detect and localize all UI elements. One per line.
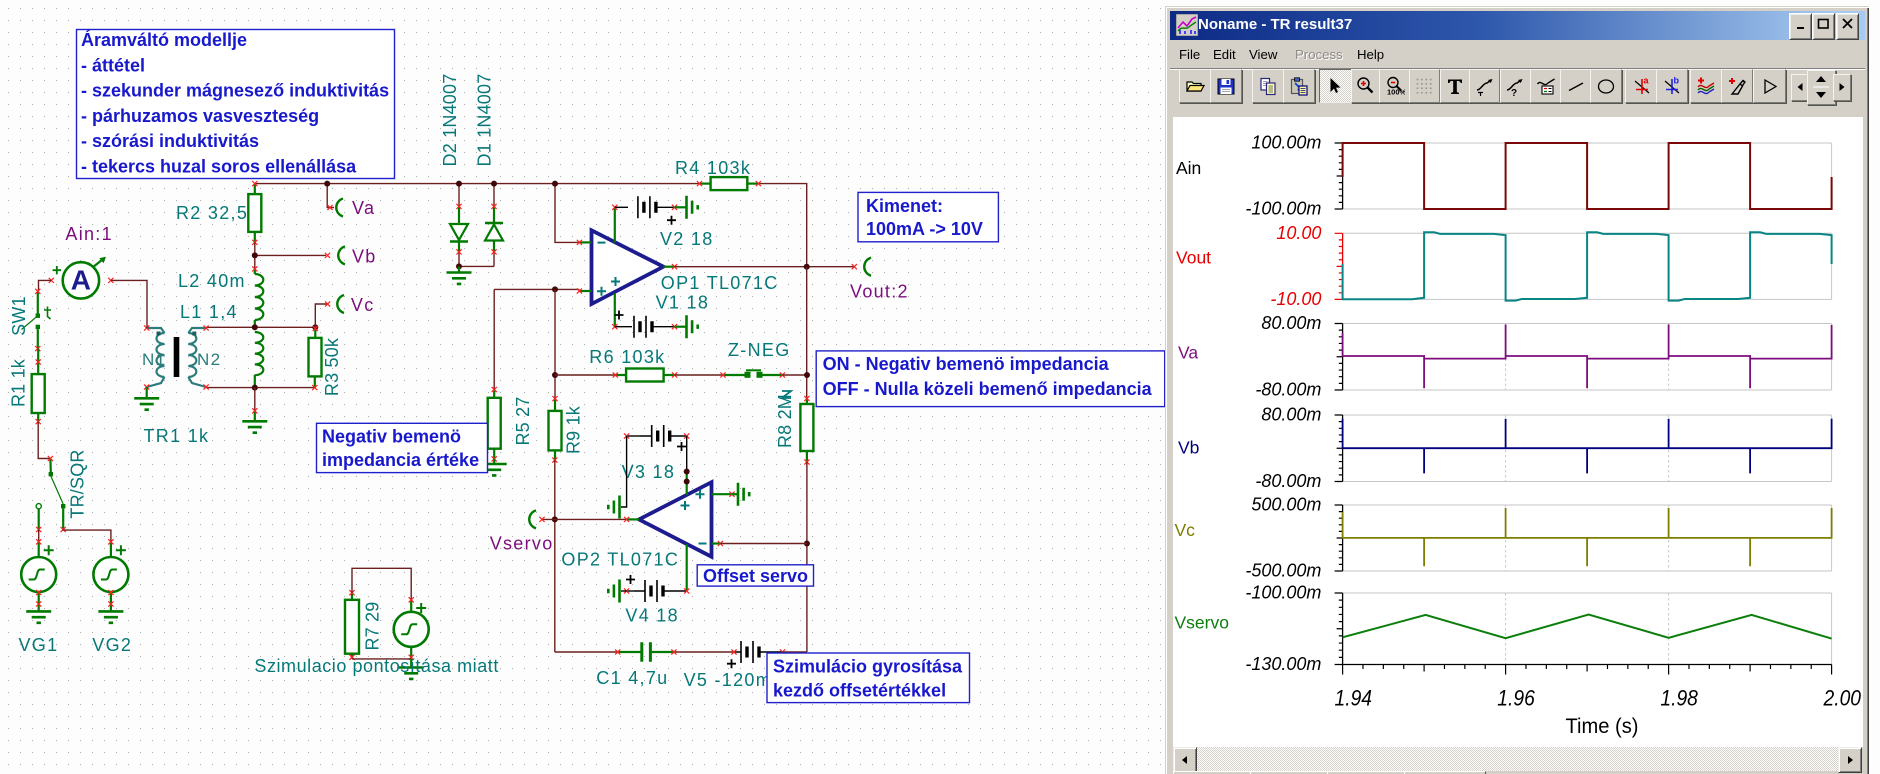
svg-text:ON - Negativ bemenö impedancia: ON - Negativ bemenö impedancia bbox=[823, 354, 1110, 374]
svg-text:- szekunder mágnesező induktiv: - szekunder mágnesező induktivitás bbox=[81, 81, 389, 101]
svg-text:500.00m: 500.00m bbox=[1251, 495, 1321, 515]
svg-text:-80.00m: -80.00m bbox=[1255, 380, 1321, 400]
svg-text:R7 29: R7 29 bbox=[363, 601, 383, 650]
svg-text:R2 32,5: R2 32,5 bbox=[176, 203, 248, 223]
svg-text:Vservo: Vservo bbox=[490, 534, 554, 554]
svg-text:Vc: Vc bbox=[1175, 520, 1196, 540]
annotation box: Aramvalto modellje bbox=[77, 29, 395, 179]
svg-text:-80.00m: -80.00m bbox=[1255, 471, 1321, 491]
svg-text:V5 -120m: V5 -120m bbox=[684, 670, 772, 690]
wire TR/SQR to VG1 bbox=[38, 530, 40, 542]
resistor R9 bbox=[549, 396, 562, 463]
svg-text:R6 103k: R6 103k bbox=[589, 347, 665, 367]
svg-text:Va: Va bbox=[352, 198, 375, 218]
svg-text:N1: N1 bbox=[142, 350, 166, 369]
ground under L1 node bbox=[242, 388, 267, 433]
svg-text:- áttétel: - áttétel bbox=[81, 55, 145, 75]
ground under diodes bbox=[447, 266, 472, 284]
svg-text:- tekercs huzal soros ellenáll: - tekercs huzal soros ellenállása bbox=[81, 157, 357, 177]
chart track Vout bbox=[1176, 223, 1832, 309]
svg-text:Vb: Vb bbox=[1178, 438, 1199, 458]
time axis bbox=[1343, 665, 1832, 675]
wire R5 node to OP1 non-inverting input bbox=[494, 286, 579, 389]
inductor L2 bbox=[252, 266, 263, 327]
svg-text:Szimulacio pontosítása miatt: Szimulacio pontosítása miatt bbox=[254, 656, 499, 676]
svg-text:D1 1N4007: D1 1N4007 bbox=[475, 74, 495, 167]
svg-text:10.00: 10.00 bbox=[1276, 223, 1321, 243]
op-amp OP2 TL071C bbox=[624, 472, 735, 591]
terminal Vservo bbox=[529, 510, 544, 528]
wire Vc tap bbox=[315, 304, 327, 327]
svg-text:C1 4,7u: C1 4,7u bbox=[596, 668, 668, 688]
trace Vout bbox=[1343, 232, 1832, 300]
svg-text:-500.00m: -500.00m bbox=[1245, 561, 1321, 581]
trace Va bbox=[1343, 325, 1832, 389]
wire Vservo node to OP2 output bbox=[542, 518, 627, 520]
chart track Va bbox=[1178, 313, 1832, 400]
svg-text:Vout:2: Vout:2 bbox=[850, 282, 909, 302]
wire OP1 output to Vout bbox=[675, 264, 855, 270]
wire R6 to Z-NEG switch bbox=[675, 374, 723, 376]
wire V3 minus down to ground bbox=[621, 436, 627, 507]
svg-text:100.00m: 100.00m bbox=[1251, 133, 1321, 153]
svg-text:V2 18: V2 18 bbox=[660, 229, 714, 249]
wire V5 to R8 column bottom bbox=[783, 651, 807, 653]
inductor L1 bbox=[255, 332, 264, 388]
svg-text:VG2: VG2 bbox=[92, 635, 132, 655]
terminal Vout bbox=[852, 258, 871, 276]
svg-text:R4 103k: R4 103k bbox=[675, 158, 751, 178]
resistor R6 bbox=[613, 369, 678, 382]
svg-text:1.94: 1.94 bbox=[1335, 686, 1373, 711]
ground for V1 bbox=[675, 315, 698, 338]
svg-text:R3 50k: R3 50k bbox=[322, 337, 342, 396]
svg-text:N2: N2 bbox=[197, 350, 221, 369]
svg-text:-10.00: -10.00 bbox=[1270, 289, 1321, 309]
switch TR/SQR bbox=[36, 456, 66, 532]
svg-text:- szórási induktivitás: - szórási induktivitás bbox=[81, 131, 259, 151]
annotation box: ON/OFF impedancia bbox=[816, 351, 1164, 407]
annotation box: Offset servo bbox=[697, 565, 813, 586]
svg-text:OFF - Nulla közeli bemenő impe: OFF - Nulla közeli bemenő impedancia bbox=[823, 379, 1153, 399]
battery V2 bbox=[615, 196, 677, 224]
svg-text:A: A bbox=[71, 265, 91, 296]
svg-text:kezdő offsetértékkel: kezdő offsetértékkel bbox=[773, 681, 946, 701]
ground under R7 source bbox=[399, 659, 424, 679]
wire V3 to OP2 V+ pin bbox=[684, 436, 690, 485]
ground for V3 bbox=[608, 496, 619, 519]
ground under N1 bbox=[134, 387, 159, 410]
svg-text:Offset servo: Offset servo bbox=[703, 566, 808, 586]
switch SW1 bbox=[22, 289, 52, 352]
resistor R1 bbox=[32, 349, 45, 425]
wire: top bus from R2 to R4 and output column bbox=[255, 184, 807, 267]
svg-text:Vout: Vout bbox=[1176, 247, 1211, 267]
svg-text:2.00: 2.00 bbox=[1823, 686, 1862, 711]
resistor R7 bbox=[345, 590, 359, 660]
svg-text:R9 1k: R9 1k bbox=[564, 405, 584, 454]
wire R7 bottom to source bottom bbox=[352, 658, 411, 660]
terminal Vc bbox=[325, 295, 344, 313]
wire to R6 from plus-input node bbox=[552, 289, 615, 398]
svg-text:?: ? bbox=[1511, 88, 1517, 97]
voltage generator VG1 bbox=[21, 539, 56, 623]
battery V5 bbox=[727, 641, 785, 668]
wire ammeter to SW1 bbox=[39, 280, 52, 291]
wire Z-NEG to R8 column bbox=[782, 267, 810, 399]
svg-text:80.00m: 80.00m bbox=[1261, 313, 1321, 333]
svg-text:V3 18: V3 18 bbox=[622, 462, 676, 482]
svg-text:Ain:1: Ain:1 bbox=[65, 224, 113, 244]
svg-text:1.98: 1.98 bbox=[1660, 686, 1698, 711]
svg-text:TR/SQR: TR/SQR bbox=[68, 449, 88, 518]
svg-text:100%: 100% bbox=[1387, 88, 1405, 97]
svg-text:Va: Va bbox=[1178, 342, 1198, 362]
svg-text:- párhuzamos vasveszteség: - párhuzamos vasveszteség bbox=[81, 106, 319, 126]
svg-text:L1 1,4: L1 1,4 bbox=[180, 302, 238, 322]
svg-text:Vc: Vc bbox=[351, 295, 375, 315]
ammeter Ain bbox=[49, 257, 114, 299]
wire R9 to Vservo node bbox=[552, 460, 558, 652]
svg-text:1.96: 1.96 bbox=[1497, 686, 1535, 711]
wire R8 to OP2 minus node bbox=[804, 462, 810, 652]
svg-text:Negativ bemenö: Negativ bemenö bbox=[322, 427, 461, 447]
wire secondary bottom bus y=387.6 bbox=[206, 385, 315, 391]
annotation box: Szimulacio gyorsitasa bbox=[767, 653, 970, 703]
svg-text:V4 18: V4 18 bbox=[625, 606, 679, 626]
svg-text:b: b bbox=[1674, 76, 1680, 86]
svg-text:100mA -> 10V: 100mA -> 10V bbox=[866, 219, 983, 239]
resistor R2 bbox=[248, 181, 261, 245]
svg-text:OP1 TL071C: OP1 TL071C bbox=[661, 273, 779, 293]
switch Z-NEG bbox=[720, 370, 791, 398]
capacitor C1 bbox=[615, 642, 676, 662]
resistor R5 bbox=[488, 387, 501, 462]
svg-text:-130.00m: -130.00m bbox=[1245, 654, 1321, 674]
transformer TR1 winding N2 bbox=[188, 325, 208, 389]
battery V4 bbox=[624, 575, 689, 602]
svg-text:80.00m: 80.00m bbox=[1261, 405, 1321, 425]
annotation box: Negativ bemeno impedancia erteke bbox=[317, 423, 488, 472]
svg-text:Z-NEG: Z-NEG bbox=[728, 340, 791, 360]
wire C1 to V5 bbox=[674, 651, 734, 653]
svg-text:-100.00m: -100.00m bbox=[1245, 199, 1321, 219]
trace Vservo bbox=[1343, 615, 1832, 639]
svg-text:V1 18: V1 18 bbox=[656, 293, 710, 313]
battery V3 bbox=[624, 425, 689, 451]
svg-text:SW1: SW1 bbox=[9, 296, 29, 336]
transformer TR1 core bbox=[174, 337, 180, 377]
wire R7 top loop to source bbox=[352, 568, 411, 600]
chart track Vc bbox=[1175, 495, 1832, 581]
svg-text:TR1 1k: TR1 1k bbox=[144, 426, 210, 446]
transformer TR1 winding N1 bbox=[144, 325, 164, 389]
trace Ain bbox=[1343, 143, 1832, 209]
wire secondary top bus y=327 bbox=[206, 324, 318, 330]
svg-text:Szimulácio gyrosítása: Szimulácio gyrosítása bbox=[773, 657, 963, 677]
wire top bus to OP1 inverting input bbox=[552, 181, 579, 243]
resistor R4 bbox=[697, 177, 761, 190]
resistor R8 bbox=[800, 396, 813, 465]
svg-text:Time (s): Time (s) bbox=[1566, 715, 1639, 738]
trace Vb bbox=[1343, 419, 1832, 474]
svg-text:a: a bbox=[1643, 76, 1649, 86]
chart track Vservo bbox=[1175, 583, 1832, 675]
wire ammeter to transformer N1 bbox=[111, 280, 147, 328]
diode D1 bbox=[485, 181, 503, 267]
wire TR/SQR to VG2 bbox=[63, 530, 111, 542]
wire R2 to L2 with Vb tap bbox=[252, 242, 326, 269]
trace Vc bbox=[1343, 508, 1832, 566]
voltage source for R7 branch bbox=[394, 597, 429, 660]
svg-text:Vservo: Vservo bbox=[1175, 613, 1229, 633]
svg-text:VG1: VG1 bbox=[19, 635, 59, 655]
wire diode bottoms join bbox=[456, 263, 494, 269]
svg-text:D2 1N4007: D2 1N4007 bbox=[440, 74, 460, 167]
wire OP2 minus input to R8 column bbox=[720, 543, 807, 545]
diode D2 bbox=[450, 181, 468, 267]
wire R1 to TR/SQR switch bbox=[38, 422, 50, 459]
ground for V4 bbox=[608, 580, 626, 603]
svg-text:R1 1k: R1 1k bbox=[9, 358, 29, 407]
terminal Va bbox=[327, 199, 343, 217]
svg-text:-100.00m: -100.00m bbox=[1245, 583, 1321, 603]
ground for V2 bbox=[675, 196, 698, 219]
annotation box: Kimenet bbox=[858, 192, 998, 241]
ground under R5 bbox=[482, 459, 507, 476]
chart track Ain bbox=[1176, 133, 1832, 219]
ground at OP2 plus input bbox=[732, 483, 749, 506]
op-amp OP1 TL071C bbox=[577, 205, 677, 330]
svg-text:R8 2M: R8 2M bbox=[775, 394, 795, 448]
voltage generator VG2 bbox=[93, 539, 128, 623]
terminal Vb bbox=[325, 246, 345, 264]
svg-text:R5 27: R5 27 bbox=[513, 396, 533, 445]
TR result window bbox=[1165, 6, 1869, 774]
svg-text:Ain: Ain bbox=[1176, 158, 1201, 178]
resistor R3 bbox=[309, 326, 322, 390]
svg-text:Vb: Vb bbox=[352, 247, 377, 267]
svg-text:L2 40m: L2 40m bbox=[178, 271, 246, 291]
svg-text:Kimenet:: Kimenet: bbox=[866, 196, 943, 216]
svg-text:Áramváltó modellje: Áramváltó modellje bbox=[81, 29, 247, 50]
svg-text:impedancia értéke: impedancia értéke bbox=[322, 450, 479, 470]
chart track Vb bbox=[1178, 405, 1832, 492]
node Va tap wire bbox=[324, 181, 334, 208]
svg-text:OP2 TL071C: OP2 TL071C bbox=[561, 550, 679, 570]
wire Vservo column to C1 bbox=[555, 651, 618, 653]
battery V1 bbox=[615, 311, 678, 338]
